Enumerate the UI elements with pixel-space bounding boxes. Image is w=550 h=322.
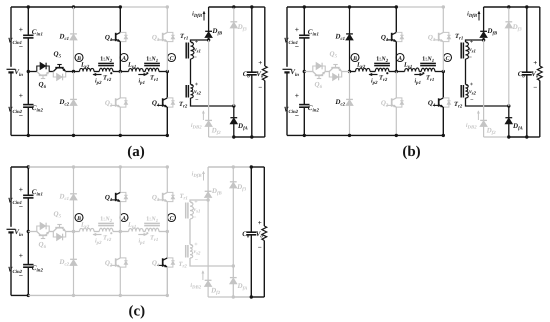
svg-text:−: − [19,271,23,280]
node: middle line / Q1 leg (A) [395,70,398,73]
transformer Tr1 secondary [180,33,201,61]
diode DfB [205,7,223,40]
inductor Lr1 [403,62,419,72]
svg-text:Vo: Vo [531,70,539,80]
diode DfB [205,167,223,200]
svg-text:−: − [195,98,199,104]
transformer Tr1 secondary [455,33,476,61]
wire: Tr2 sec bottom lead [191,98,234,106]
svg-text:Q3: Q3 [428,33,436,43]
current arrow iDB2 [191,111,205,131]
node: bottom rail / DfA leg [232,295,235,298]
svg-text:Q4: Q4 [152,259,160,269]
wire: Q2 leg lower [395,107,397,135]
node: bottom rail / Co leg [525,135,528,138]
node: sec bottom lead / DfA leg [232,104,235,107]
wire: Lr1 to Tr1 [143,231,145,233]
resistor Vo [531,7,542,137]
wire: Cin leg lower [27,107,29,135]
diode Df2 leg (crosses sec bottom lead) [480,40,496,137]
node: Cin leg / middle line junction [27,70,30,73]
node B [351,54,359,63]
transistor Q1 [381,32,404,42]
svg-text:Q2: Q2 [105,259,113,269]
wire: Dc leg upper [73,7,75,34]
svg-text:Tr2: Tr2 [379,75,388,84]
wire: Dc leg mid-lower [73,72,75,100]
svg-text:ip1: ip1 [415,78,421,87]
wire: Tr1 to node C [159,231,167,233]
current arrow ip1 [138,233,146,246]
wire: output top rail right [251,166,264,168]
diode Dc2 [334,98,352,108]
wire: output bottom rail mid [509,136,527,138]
svg-text:Dc2: Dc2 [58,258,69,268]
svg-text:ip1: ip1 [139,78,145,87]
svg-text:Tr1: Tr1 [150,75,158,84]
node: top rail / Q1 leg [119,165,122,168]
svg-text:Q3: Q3 [152,33,160,43]
svg-text:+: + [533,59,537,67]
diode Df2 leg (crosses sec bottom lead) [205,40,221,137]
svg-text:Dc2: Dc2 [58,98,69,108]
wire: Q4 leg lower [166,107,168,135]
capacitor Cin1 [8,185,43,211]
svg-text:−: − [533,84,537,92]
svg-text:C: C [446,56,450,62]
wire: Q4 leg upper [166,72,168,98]
wire: Cin leg mid-lower [303,72,305,105]
transistor Q4 [152,258,175,269]
svg-text:iDB2: iDB2 [190,282,201,291]
capacitor Co [243,7,257,137]
transistor Q4 [428,98,451,109]
svg-text:iDfB: iDfB [467,11,478,20]
inductor Lr1 [127,62,143,72]
svg-text:ip1: ip1 [139,238,145,247]
svg-text:Dc1: Dc1 [58,193,69,203]
capacitor Co [518,7,532,137]
wire: Tr2 sec bottom lead [190,258,233,266]
capacitor Cin2 [8,251,44,280]
svg-text:iDfB: iDfB [192,171,203,180]
transformer Tr2 secondary [454,82,477,110]
wire: b top rail seg3 [396,6,443,8]
node: top rail / Df3 leg [507,5,510,8]
node: sec top lead / DfB leg [207,38,210,41]
node: bottom rail / DfA leg [232,135,235,138]
diode Df3 [230,167,247,266]
wire: Dc leg lower [349,105,351,135]
svg-text:Tr2: Tr2 [179,261,188,270]
svg-text:A: A [397,56,402,62]
wire: Q1 leg lower [119,42,121,72]
current arrow iDB2 [466,111,480,131]
svg-text:Dc1: Dc1 [58,33,69,43]
svg-text:Vin: Vin [14,68,23,78]
wire: a bottom rail seg2 [28,134,120,136]
wire: Q3 leg upper [442,7,444,32]
wire: Q1 leg upper [119,167,121,192]
wire: node B to Lr2 [74,231,80,233]
node: bottom rail / Dc leg [72,294,75,297]
svg-text:+: + [19,91,23,100]
svg-text:1:N1: 1:N1 [146,215,158,224]
wire: Tr1 to node C [159,71,167,73]
diode DfA [230,106,247,137]
node: bottom rail / Q4 leg [166,134,169,137]
svg-text:Vin: Vin [14,228,23,238]
transistor Q3 [428,32,451,42]
wire: Dc leg lower [73,265,75,295]
node: middle line / Q3 leg (C) [442,70,445,73]
svg-text:Q1: Q1 [381,33,388,43]
svg-text:−: − [470,98,474,104]
node: middle line / Q1 leg (A) [119,70,122,73]
svg-text:C: C [170,216,174,222]
svg-text:+: + [19,185,23,194]
svg-text:Df2: Df2 [211,127,222,137]
wire: node A to Lr1 [120,71,128,73]
wire: Dc leg mid-upper [73,40,75,72]
wire: Lr2 to Tr2 [94,231,99,233]
caption (b) [402,144,420,160]
current arrow ip2 [369,73,378,86]
wire: a top rail seg1 [11,6,28,8]
svg-text:Q6: Q6 [39,241,47,251]
wire: Tr2 sec bottom lead [466,98,509,106]
svg-text:+: + [258,219,262,227]
node: sec top lead / DfB leg [482,38,485,41]
inductor Lr1 [127,222,143,232]
resistor Vo [256,7,267,137]
wire: Cin leg upper [27,167,29,195]
diode DfA [505,106,522,137]
wire: Q1 leg lower [119,202,121,232]
transformer Tr1 primary [144,55,160,83]
wire: output bottom rail left [484,136,509,138]
wire: series link between secondaries [189,219,191,245]
transistor Q5 [329,50,341,72]
current arrow iDfB [192,171,205,181]
svg-text:Df2: Df2 [210,287,221,297]
transformer Tr2 primary [98,55,114,83]
wire: c bottom rail seg1 [11,294,28,296]
transistor Q2 [381,98,404,109]
node: middle line / Q1 leg (A) [119,230,122,233]
wire: output top rail right [252,6,265,8]
wire: Q1 leg upper [119,7,121,32]
wire: Cin leg mid-upper [27,198,29,232]
current arrow iDfB [192,11,205,21]
transistor Q3 [152,32,175,42]
wire: Q4 leg upper [442,72,444,98]
wire: between Q6 and Q5 [49,231,53,233]
wire: output bottom rail right [251,296,264,298]
node: top rail / Cin leg junction [27,5,30,8]
svg-text:DfB: DfB [211,187,223,197]
diode: Q5 antiparallel (bottom loop) [53,72,65,81]
svg-text:−: − [295,111,299,120]
battery Vin [283,68,300,78]
diode Dc1 [58,33,76,43]
svg-text:+: + [470,82,474,88]
wire: Dc leg upper [349,7,351,34]
svg-text:Q5: Q5 [330,50,338,60]
node: top rail / Dc leg [72,165,75,168]
svg-text:−: − [469,55,473,61]
node: top rail / Co leg [250,5,253,8]
wire: b top rail seg1 [287,6,304,8]
wire: Cin leg mid-upper [27,38,29,72]
node: bottom rail / DfA leg [507,135,510,138]
transistor Q1 [105,192,128,203]
svg-text:ip2: ip2 [95,238,102,247]
diode Df3 [230,7,247,106]
node: bottom rail / Q2 leg [395,134,398,137]
wire: Cin leg mid-lower [27,72,29,105]
transformer Tr1 primary [420,55,436,83]
node C [168,54,176,63]
wire: Q1 leg upper [395,7,397,32]
battery Vin [7,228,24,238]
wire: Q2 leg upper [395,72,397,98]
node: sec bottom lead / DfA leg [232,264,235,267]
inductor Lr2 [356,62,371,72]
node: top rail / Dc leg [348,5,351,8]
svg-text:C: C [170,56,174,62]
svg-text:1:N2: 1:N2 [376,55,389,64]
current arrow ip2 [93,233,102,246]
wire: b bottom rail seg1 [287,134,304,136]
svg-text:Df2: Df2 [486,127,497,137]
battery Vin [7,68,24,78]
svg-text:Df3: Df3 [236,183,247,193]
node: bottom rail / Cin leg junction [303,134,306,137]
svg-text:+: + [195,82,199,88]
node: top rail / Q3 leg [166,165,169,168]
svg-text:Vo: Vo [256,230,264,240]
wire: Dc leg upper [73,167,75,194]
svg-text:Lr1: Lr1 [127,62,136,71]
svg-text:A: A [121,56,126,62]
transistor Q3 [152,192,175,203]
wire: middle line battery to switch [28,71,37,73]
transistor Q2 [105,98,128,109]
node B [75,214,83,223]
diode Df2 leg (crosses sec bottom lead) [205,200,221,297]
node: top rail / Q1 leg [119,5,122,8]
svg-text:Cin2: Cin2 [308,104,320,114]
svg-text:+: + [19,251,23,260]
wire: c left rail bottom [10,232,12,295]
svg-text:(b): (b) [402,144,420,160]
wire: between Q6 and Q5 [325,71,329,73]
svg-text:−: − [295,42,299,51]
svg-text:vs2: vs2 [469,89,476,97]
transformer Tr2 secondary [179,242,202,270]
node: top rail / Cin leg junction [27,165,30,168]
transformer Tr1 secondary [180,193,201,221]
node: bottom rail / Dc leg [348,134,351,137]
diode Dc1 [334,33,352,43]
svg-text:+: + [295,25,299,34]
wire: node B to Lr2 [350,71,356,73]
wire: output bottom rail left [209,136,234,138]
diode DfB [480,7,498,40]
node: Dc leg / middle line [72,230,75,233]
wire: Q4 leg upper [166,232,168,258]
node: middle line / Q3 leg (C) [166,230,169,233]
capacitor Cin1 [284,25,319,51]
wire: node B to Lr2 [74,71,80,73]
svg-text:−: − [19,202,23,211]
svg-text:iDB2: iDB2 [191,122,202,131]
node: sec bottom lead / DfA leg [507,104,510,107]
wire: Cin leg upper [27,7,29,35]
transistor Q2 [105,258,128,269]
wire: output top rail left [209,6,252,8]
current arrow iDB2 [190,271,204,291]
svg-text:Q2: Q2 [381,99,389,109]
diode: Q6 antiparallel (top loop) [37,63,49,72]
current arrow ip1 [414,73,422,86]
svg-text:Tr2: Tr2 [103,75,112,84]
wire: Q3 leg lower [166,202,168,232]
inductor Lr2 [80,222,95,232]
wire: a top rail seg2 [28,6,120,8]
wire: between Q6 and Q5 [49,71,53,73]
wire: c bottom rail seg2 [28,294,120,296]
svg-text:DfA: DfA [237,282,248,292]
wire: Cin leg lower [27,267,29,295]
svg-text:(a): (a) [127,144,145,160]
svg-text:Tr1: Tr1 [426,75,434,84]
svg-text:Q6: Q6 [315,81,323,91]
wire: output bottom rail mid [233,296,251,298]
wire: c top rail seg2 [28,166,120,168]
node: bottom rail / Cin leg junction [27,134,30,137]
wire: Q3 leg lower [166,42,168,72]
wire: Q4 leg lower [166,267,168,295]
capacitor Co [242,167,256,297]
wire: Q3 leg upper [166,7,168,32]
capacitor Cin2 [284,91,320,120]
wire: Cin leg lower [303,107,305,135]
svg-text:Tr1: Tr1 [455,33,463,42]
diode Df3 [505,7,522,106]
wire: Q3 leg upper [166,167,168,192]
wire: Tr1 sec top lead [191,40,209,42]
node: top rail / Cin leg junction [303,5,306,8]
svg-text:Q3: Q3 [152,193,160,203]
wire: Dc leg mid-lower [73,232,75,260]
diode Dc2 [58,258,76,268]
wire: output top rail left [484,6,527,8]
wire: Cin leg mid-upper [303,38,305,72]
diode: Q6 antiparallel (top loop) [313,63,325,72]
node A [396,54,404,63]
transistor Q4 [152,98,175,109]
wire: middle line battery to switch [304,71,313,73]
node: top rail / Q3 leg [166,5,169,8]
capacitor Cin2 [8,91,44,120]
svg-text:−: − [258,244,262,252]
wire: c top rail seg1 [11,166,28,168]
diode: Q5 antiparallel (bottom loop) [329,72,341,81]
node: top rail / Co leg [250,165,253,168]
svg-text:Q1: Q1 [105,193,112,203]
inductor Lr2 [80,62,95,72]
wire: series link between secondaries [465,59,467,85]
svg-text:DfA: DfA [237,122,248,132]
svg-text:Q5: Q5 [54,210,62,220]
wire: Tr2 to node A [113,71,120,73]
wire: b top rail seg2 [304,6,396,8]
wire: a bottom rail seg1 [11,134,28,136]
wire: a bottom rail seg3 [120,134,167,136]
svg-text:DfA: DfA [512,122,523,132]
node: Dc leg / middle line [348,70,351,73]
current arrow ip1 [138,73,146,86]
node B [75,54,83,63]
wire: Tr1 to node C [435,71,443,73]
wire: b left rail top [286,7,288,67]
wire: Dc leg mid-lower [349,72,351,100]
wire: Lr1 to Tr1 [419,71,421,73]
node: Cin leg / middle line junction [303,70,306,73]
svg-text:ip2: ip2 [95,78,102,87]
wire: middle line battery to switch [28,231,37,233]
svg-text:1:N2: 1:N2 [100,55,113,64]
node: bottom rail / Cin leg junction [27,294,30,297]
wire: output top rail left [208,166,251,168]
svg-text:ip2: ip2 [371,78,378,87]
transistor Q1 [105,32,128,42]
svg-text:−: − [195,258,199,264]
svg-text:Df3: Df3 [237,23,248,33]
wire: Tr2 to node A [389,71,396,73]
svg-text:Tr2: Tr2 [103,235,112,244]
wire: Tr2 to node A [113,231,120,233]
wire: output bottom rail left [208,296,233,298]
svg-text:1:N1: 1:N1 [146,55,158,64]
svg-text:Dc2: Dc2 [334,98,345,108]
node: top rail / Dc leg [72,5,75,8]
svg-text:Vo: Vo [256,70,264,80]
wire: Q2 leg upper [119,232,121,258]
node: Dc leg / middle line [72,70,75,73]
resistor Vo [256,167,267,297]
svg-text:Tr1: Tr1 [150,235,158,244]
node: Cin leg / middle line junction [27,230,30,233]
diode: Q5 antiparallel (bottom loop) [53,232,65,241]
node: bottom rail / Dc leg [72,134,75,137]
svg-text:Tr1: Tr1 [180,193,188,202]
node: bottom rail / Q4 leg [442,134,445,137]
wire: Lr2 to Tr2 [370,71,375,73]
svg-text:DfB: DfB [211,27,223,37]
wire: switch to node B [66,71,74,73]
node: top rail / Df3 leg [232,165,235,168]
wire: output bottom rail right [252,136,265,138]
wire: b bottom rail seg2 [304,134,396,136]
wire: b left rail bottom [286,72,288,135]
caption (c) [128,304,145,320]
svg-text:DfB: DfB [486,27,498,37]
svg-text:Q6: Q6 [39,81,47,91]
wire: Lr1 to Tr1 [143,71,145,73]
